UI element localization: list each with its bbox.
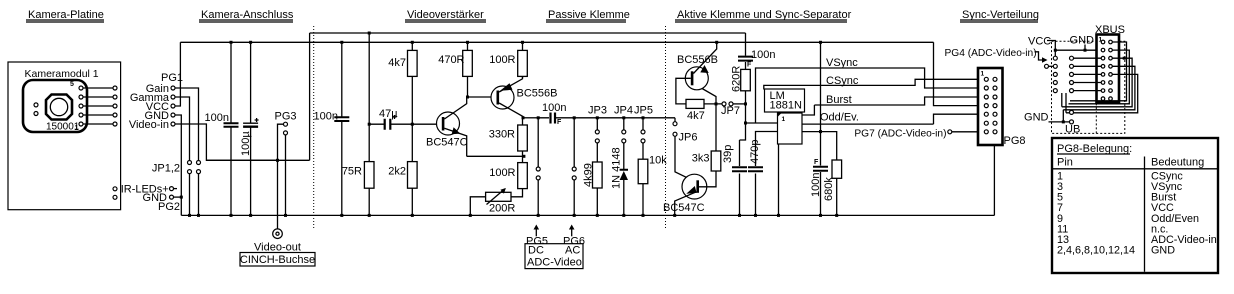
svg-text:3k3: 3k3 <box>692 153 710 165</box>
svg-text:470R: 470R <box>438 54 464 66</box>
svg-text:100R: 100R <box>489 167 515 179</box>
svg-text:BC547C: BC547C <box>426 137 468 149</box>
svg-text:5: 5 <box>70 81 74 88</box>
svg-text:4k99: 4k99 <box>583 163 595 187</box>
svg-text:Videoverstärker: Videoverstärker <box>407 9 484 21</box>
svg-text:4k7: 4k7 <box>388 57 406 69</box>
svg-text:330R: 330R <box>489 129 515 141</box>
svg-text:VCC: VCC <box>1028 36 1051 48</box>
svg-text:Kameramodul 1: Kameramodul 1 <box>25 68 99 80</box>
svg-text:PG7 (ADC-Video-in): PG7 (ADC-Video-in) <box>854 129 946 140</box>
svg-text:1881N: 1881N <box>770 100 802 112</box>
svg-text:PG4 (ADC-Video-in): PG4 (ADC-Video-in) <box>945 48 1037 59</box>
svg-text:1N 4148: 1N 4148 <box>611 147 623 189</box>
svg-text:1: 1 <box>782 116 786 123</box>
svg-text:JP4: JP4 <box>614 105 633 117</box>
svg-text:JP6: JP6 <box>679 132 698 144</box>
svg-text:100n: 100n <box>542 102 566 114</box>
svg-text:Burst: Burst <box>826 94 852 106</box>
svg-text:Kamera-Platine: Kamera-Platine <box>28 9 104 21</box>
svg-text:DC: DC <box>528 245 544 257</box>
svg-text:Odd/Ev.: Odd/Ev. <box>820 112 859 124</box>
svg-text:BC547C: BC547C <box>663 202 705 214</box>
svg-text:620R: 620R <box>731 66 743 92</box>
svg-text:PG2: PG2 <box>158 201 180 213</box>
svg-text:Aktive Klemme und Sync-Separat: Aktive Klemme und Sync-Separator <box>677 9 852 21</box>
svg-text:100n: 100n <box>751 49 775 61</box>
svg-text:4k7: 4k7 <box>687 110 705 122</box>
svg-text:Video-out: Video-out <box>254 242 301 254</box>
svg-text:Kamera-Anschluss: Kamera-Anschluss <box>201 9 294 21</box>
svg-text:BC556B: BC556B <box>517 88 558 100</box>
svg-text:Pin: Pin <box>1057 157 1073 169</box>
svg-text:680k: 680k <box>823 177 835 201</box>
svg-text:2k2: 2k2 <box>388 166 406 178</box>
svg-text:Passive Klemme: Passive Klemme <box>548 9 630 21</box>
svg-text:JP3: JP3 <box>588 105 607 117</box>
svg-text:Bedeutung: Bedeutung <box>1151 157 1204 169</box>
svg-text:PG3: PG3 <box>275 111 297 123</box>
svg-text:JP7: JP7 <box>721 105 740 117</box>
svg-text:PG8: PG8 <box>1004 135 1026 147</box>
svg-text:Video-in: Video-in <box>129 119 169 131</box>
svg-text:39p: 39p <box>722 145 734 163</box>
svg-text:VSync: VSync <box>826 57 858 69</box>
svg-text:ADC-Video: ADC-Video <box>527 257 582 269</box>
svg-text:47µ: 47µ <box>379 108 398 120</box>
svg-text:GND: GND <box>1070 35 1095 47</box>
svg-text:BC556B: BC556B <box>677 54 718 66</box>
svg-text:JP5: JP5 <box>634 105 653 117</box>
svg-text:1: 1 <box>981 71 985 78</box>
svg-text:F: F <box>747 62 752 69</box>
svg-text:2,4,6,8,10,12,14: 2,4,6,8,10,12,14 <box>1057 245 1135 257</box>
svg-text:F: F <box>814 159 819 166</box>
svg-text:PG8-Belegung:: PG8-Belegung: <box>1057 143 1132 155</box>
svg-text:10k: 10k <box>649 155 667 167</box>
svg-text:GND: GND <box>1151 245 1175 257</box>
svg-text:UB: UB <box>1065 124 1080 136</box>
svg-text:100R: 100R <box>489 54 515 66</box>
svg-text:F: F <box>557 119 562 126</box>
svg-text:CINCH-Buchse: CINCH-Buchse <box>240 254 315 266</box>
svg-text:100n: 100n <box>810 173 822 197</box>
svg-text:1: 1 <box>75 125 79 132</box>
svg-text:470p: 470p <box>749 140 761 164</box>
svg-text:GND: GND <box>1024 112 1049 124</box>
svg-text:JP1,2: JP1,2 <box>152 163 180 175</box>
svg-text:75R: 75R <box>342 166 362 178</box>
svg-text:AC: AC <box>565 245 580 257</box>
svg-text:200R: 200R <box>489 203 515 215</box>
svg-text:Sync-Verteilung: Sync-Verteilung <box>962 9 1039 21</box>
